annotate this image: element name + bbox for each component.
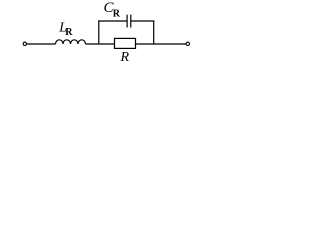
svg-text:R: R (113, 9, 121, 20)
svg-text:R: R (120, 50, 130, 65)
svg-text:R: R (65, 27, 73, 38)
